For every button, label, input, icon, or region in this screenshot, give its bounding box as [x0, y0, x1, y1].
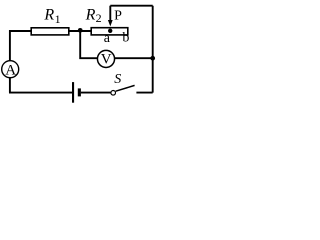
svg-text:S: S	[114, 72, 121, 87]
svg-text:P: P	[114, 8, 122, 23]
wire R1 to R2	[69, 30, 91, 32]
battery short plate	[78, 88, 81, 96]
wire voltmeter to right	[115, 57, 153, 59]
node junction dot left	[78, 28, 83, 33]
ammeter A	[2, 61, 19, 78]
wire voltmeter branch	[80, 31, 97, 58]
svg-text:2: 2	[96, 11, 102, 25]
wire battery to switch	[81, 92, 111, 94]
svg-text:A: A	[5, 62, 16, 78]
switch S contact circle	[111, 91, 116, 96]
svg-text:b: b	[122, 31, 129, 46]
wire bottom right	[136, 92, 152, 94]
battery long plate	[72, 82, 74, 103]
resistor R1	[31, 28, 69, 35]
wire top-left horizontal	[9, 30, 31, 32]
svg-text:a: a	[104, 31, 111, 46]
svg-text:R: R	[43, 7, 54, 24]
wire right vertical	[152, 6, 154, 93]
wire left vertical lower	[9, 78, 11, 93]
wire bottom left	[9, 92, 72, 94]
slider contact dot	[108, 29, 112, 33]
node junction dot right	[150, 56, 155, 61]
voltmeter V	[97, 50, 114, 67]
switch blade	[116, 85, 135, 91]
wire left vertical upper	[9, 30, 11, 60]
svg-text:1: 1	[55, 12, 61, 26]
svg-text:V: V	[101, 51, 112, 67]
rheostat R2 body	[91, 28, 128, 35]
rheostat slider arrow P	[109, 6, 111, 21]
svg-text:R: R	[85, 7, 96, 24]
wire top right	[110, 5, 152, 7]
